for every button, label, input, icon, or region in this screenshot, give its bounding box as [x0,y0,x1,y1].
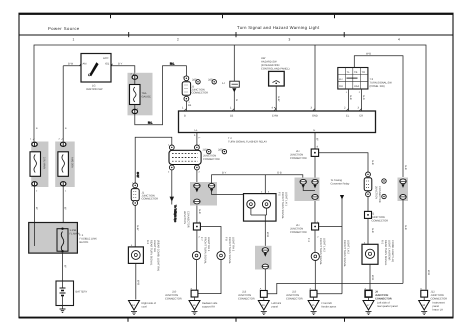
svg-text:F 5: F 5 [278,192,281,196]
svg-text:LH: LH [339,78,342,81]
svg-text:CONNECTOR: CONNECTOR [142,198,159,201]
svg-text:(COMB. SW): (COMB. SW) [370,85,385,88]
svg-text:AM: AM [83,63,87,66]
svg-text:LIGHT LH (REAR: LIGHT LH (REAR [388,240,391,261]
svg-text:REAR TURN SIGNAL: REAR TURN SIGNAL [384,240,387,266]
svg-text:COMB. LIGHT LH): COMB. LIGHT LH) [391,240,394,262]
svg-text:LIGHT RH 2: LIGHT RH 2 [232,237,235,252]
svg-text:CONNECTOR: CONNECTOR [375,298,392,301]
svg-text:BLOCK: BLOCK [80,241,89,244]
svg-text:2: 2 [177,38,179,42]
svg-text:W-B: W-B [427,270,430,275]
svg-text:G-B: G-B [404,225,407,230]
svg-text:W-B: W-B [366,53,371,56]
svg-text:G-B: G-B [371,228,374,233]
svg-text:LIGHT LH 2: LIGHT LH 2 [347,240,350,254]
svg-text:HAZ: HAZ [354,85,360,88]
svg-text:G-W: G-W [136,172,139,178]
svg-text:CONNECTOR: CONNECTOR [192,92,209,95]
svg-text:IG1: IG1 [105,63,110,66]
svg-text:G-R: G-R [362,95,365,100]
svg-text:REAR TURN SIGNAL: REAR TURN SIGNAL [150,240,153,266]
svg-text:1B: 1B [230,115,233,118]
svg-text:JUNCTION: JUNCTION [375,186,378,199]
svg-text:B-W: B-W [68,63,74,66]
svg-text:CONNECTOR: CONNECTOR [203,158,220,161]
svg-text:fender apron: fender apron [322,306,337,309]
svg-text:GAUGE: GAUGE [142,96,152,99]
svg-text:3: 3 [289,38,291,42]
svg-text:W-B: W-B [266,232,269,237]
svg-text:2(G): 2(G) [192,79,197,82]
svg-text:Power Source: Power Source [48,26,80,31]
svg-text:TURN SIGNAL FLASHER RELAY: TURN SIGNAL FLASHER RELAY [228,141,267,144]
svg-text:2(G): 2(G) [208,79,213,82]
svg-text:LIGHT RH 1: LIGHT RH 1 [207,237,210,252]
svg-text:1: 1 [73,38,75,42]
svg-text:CONTROL AND PANEL): CONTROL AND PANEL) [261,68,290,71]
svg-text:B-Y: B-Y [118,63,123,66]
svg-text:FRONT TURN SIGNAL: FRONT TURN SIGNAL [204,237,207,265]
svg-text:Turn Signal and Hazard Warning: Turn Signal and Hazard Warning Light [237,25,320,30]
svg-text:(REAR COMB. LIGHT RH): (REAR COMB. LIGHT RH) [157,240,160,271]
svg-text:FRONT TURN SIGNAL: FRONT TURN SIGNAL [319,238,322,266]
svg-text:FRONT TURN SIGNAL: FRONT TURN SIGNAL [281,192,284,220]
svg-text:Converter Relay: Converter Relay [331,183,350,186]
svg-text:EHW: EHW [272,115,279,118]
svg-text:G-B: G-B [404,165,407,170]
svg-text:G: G [235,99,238,101]
svg-text:R 6: R 6 [146,240,149,245]
svg-text:EL: EL [346,115,350,118]
svg-text:CONNECTOR: CONNECTOR [378,186,381,203]
svg-text:CONNECTOR: CONNECTOR [286,298,303,301]
svg-text:BATTERY: BATTERY [76,291,88,294]
svg-text:CONNECTOR: CONNECTOR [290,157,307,160]
svg-text:ER: ER [360,115,364,118]
svg-text:G-B: G-B [198,209,201,214]
svg-text:R-L: R-L [170,63,175,66]
svg-text:1B: 1B [188,104,191,107]
svg-text:CONNECTOR: CONNECTOR [187,211,190,228]
svg-text:G-B: G-B [371,160,374,165]
svg-text:F 8: F 8 [225,237,228,241]
svg-text:TB: TB [354,71,358,74]
svg-text:2.0L MAIN: 2.0L MAIN [43,157,46,169]
svg-text:FRONT TURN SIGNAL: FRONT TURN SIGNAL [343,240,346,268]
svg-text:CONNECTOR: CONNECTOR [238,298,255,301]
svg-text:To Taillight Sys: To Taillight Sys [174,205,177,223]
svg-text:F 4: F 4 [307,238,310,242]
svg-text:G-W: G-W [136,225,139,231]
svg-text:FRONT TURN SIGNAL: FRONT TURN SIGNAL [228,237,231,265]
svg-text:LIGHT LH 1: LIGHT LH 1 [285,192,288,206]
svg-text:F 7: F 7 [200,237,203,241]
svg-text:B: B [184,115,186,118]
svg-text:cowl: cowl [142,306,148,309]
svg-text:CONNECTOR: CONNECTOR [431,298,448,301]
svg-text:W-B: W-B [371,275,374,280]
svg-text:GND: GND [312,115,318,118]
svg-text:brace LH: brace LH [433,309,444,312]
svg-text:JUNCTION: JUNCTION [183,211,186,224]
svg-text:AM2 30A: AM2 30A [71,157,74,168]
svg-text:support RH: support RH [202,306,215,309]
svg-text:G-B: G-B [349,95,352,100]
svg-text:E: E [314,129,316,132]
svg-text:W-B: W-B [137,280,140,285]
svg-text:CONNECTOR: CONNECTOR [165,298,182,301]
svg-text:LIGHT RH: LIGHT RH [153,240,156,252]
svg-text:R 5: R 5 [381,240,384,245]
svg-text:ACC: ACC [103,57,109,60]
svg-text:panel: panel [272,306,279,309]
svg-text:CONNECTOR: CONNECTOR [372,220,389,223]
svg-text:TR: TR [362,71,366,74]
svg-text:2(G): 2(G) [218,149,223,152]
svg-text:LIGHT LH 2: LIGHT LH 2 [323,238,326,252]
svg-text:G-B: G-B [277,172,282,175]
svg-text:CONNECTOR: CONNECTOR [290,231,307,234]
svg-text:G-W: G-W [277,96,280,102]
svg-text:B-Y: B-Y [222,172,227,175]
svg-text:FL MAIN: FL MAIN [70,233,80,236]
svg-text:IGNITION SW: IGNITION SW [86,88,103,91]
svg-text:2(G): 2(G) [203,149,208,152]
svg-text:rear quarter panel: rear quarter panel [377,305,398,308]
svg-text:R-L: R-L [148,122,153,125]
svg-text:RH: RH [339,85,343,88]
svg-text:4: 4 [398,38,400,42]
